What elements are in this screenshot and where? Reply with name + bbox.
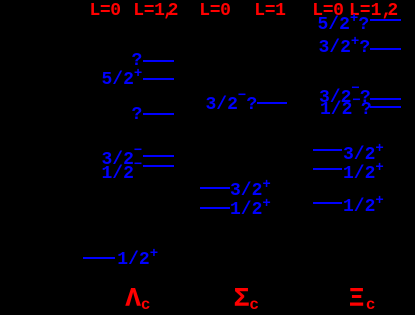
Xi_c label 3/2+? bbox=[319, 39, 371, 57]
Lambda_c L=1,2 level line 3/2- bbox=[143, 155, 174, 157]
Xi_c label 1/2+ (ground) bbox=[343, 198, 384, 216]
Lambda_c L=1,2 level line ? (lower) bbox=[143, 113, 174, 115]
Xi_c L=1,2 level line 5/2+? bbox=[370, 19, 401, 21]
Lambda_c L=1,2 level line ? (upper) bbox=[143, 60, 174, 62]
header Sigma_c L=1 bbox=[254, 2, 285, 20]
Lambda_c L=0 level line 1/2+ bbox=[83, 257, 115, 259]
header Sigma_c L=0 bbox=[199, 2, 230, 20]
Xi_c label 3/2-? bbox=[319, 89, 371, 107]
Sigma_c label 3/2+ bbox=[230, 182, 271, 200]
Lambda_c label ? (lower) bbox=[132, 106, 143, 124]
Xi_c label 5/2+? bbox=[318, 16, 370, 34]
Lambda_c label 1/2- bbox=[102, 165, 143, 183]
header Lambda_c L=1,2 bbox=[133, 2, 178, 20]
Lambda_c label 5/2+ bbox=[102, 71, 143, 89]
Xi_c L=1,2 level line 3/2+? bbox=[370, 48, 401, 50]
Lambda_c L=1,2 level line 5/2+ bbox=[143, 78, 174, 80]
axis label Xi_c bbox=[349, 287, 376, 314]
Xi_c L=0 level line 1/2+ bbox=[313, 168, 343, 170]
Xi_c L=0 ground level line 1/2+ bbox=[313, 202, 343, 204]
header Xi_c L=0 bbox=[312, 2, 343, 20]
Sigma_c label 3/2-? bbox=[206, 96, 258, 114]
Sigma_c L=0 level line 3/2+ bbox=[200, 187, 230, 189]
Xi_c L=1,2 level line 3/2-? bbox=[370, 98, 401, 100]
Xi_c label 1/2-? bbox=[320, 101, 372, 119]
Xi_c label 3/2+ bbox=[343, 146, 384, 164]
Sigma_c label 1/2+ bbox=[230, 201, 271, 219]
Sigma_c L=1 level line 3/2-? bbox=[257, 102, 287, 104]
header Xi_c L=1,2 bbox=[349, 2, 398, 20]
Xi_c L=1,2 level line 1/2-? bbox=[370, 106, 401, 108]
Lambda_c L=1,2 level line 1/2- bbox=[143, 165, 174, 167]
Xi_c label 1/2+ (excited) bbox=[343, 165, 384, 183]
axis label Lambda_c bbox=[125, 287, 150, 314]
axis label Sigma_c bbox=[234, 287, 259, 314]
Lambda_c label 3/2- bbox=[102, 151, 143, 169]
Lambda_c L=0 label 1/2+ bbox=[117, 251, 158, 269]
Lambda_c label ? (upper) bbox=[132, 52, 143, 70]
Sigma_c L=0 level line 1/2+ bbox=[200, 207, 230, 209]
header Lambda_c L=0 bbox=[90, 2, 121, 20]
Xi_c L=0 level line 3/2+ bbox=[313, 149, 343, 151]
